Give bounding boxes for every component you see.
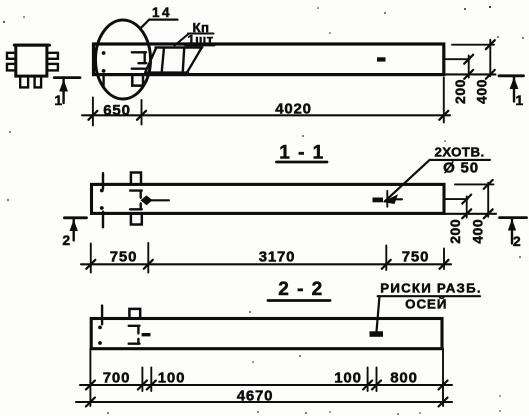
svg-text:4670: 4670 — [237, 387, 274, 404]
svg-text:650: 650 — [103, 102, 130, 119]
svg-text:750: 750 — [110, 248, 137, 265]
svg-text:4020: 4020 — [275, 100, 312, 117]
svg-text:1: 1 — [54, 92, 62, 108]
svg-text:1 - 1: 1 - 1 — [279, 143, 325, 164]
svg-text:750: 750 — [402, 248, 429, 265]
svg-text:200: 200 — [447, 219, 463, 244]
svg-text:400: 400 — [470, 219, 486, 244]
svg-text:100: 100 — [158, 369, 185, 386]
svg-text:3170: 3170 — [259, 248, 296, 265]
svg-text:2: 2 — [62, 232, 70, 248]
svg-text:800: 800 — [390, 369, 417, 386]
svg-text:ОСЕЙ: ОСЕЙ — [405, 296, 447, 311]
svg-text:14: 14 — [152, 5, 172, 20]
svg-text:РИСКИ РАЗБ.: РИСКИ РАЗБ. — [380, 280, 481, 295]
svg-text:200: 200 — [452, 79, 468, 104]
svg-text:100: 100 — [334, 369, 361, 386]
svg-text:400: 400 — [474, 79, 490, 104]
svg-text:1шт: 1шт — [187, 32, 213, 47]
svg-text:Ø 50: Ø 50 — [443, 160, 479, 177]
svg-text:2ХОТВ.: 2ХОТВ. — [434, 145, 484, 160]
svg-text:2 - 2: 2 - 2 — [278, 279, 324, 300]
svg-text:1: 1 — [515, 92, 523, 108]
svg-text:700: 700 — [103, 369, 130, 386]
svg-text:2: 2 — [513, 233, 521, 249]
